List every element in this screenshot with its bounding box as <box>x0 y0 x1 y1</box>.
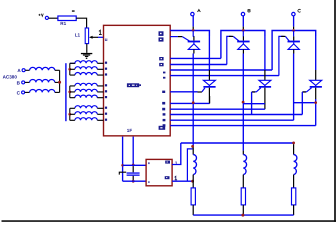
load B stub 3 <box>242 205 244 215</box>
node dot C feed <box>292 142 295 145</box>
wire <box>25 69 29 71</box>
IC output line 1 <box>170 57 221 59</box>
wire to box upper <box>123 164 147 166</box>
IC top-right pin glyphs <box>159 31 164 41</box>
box interior tick bottom-left <box>148 181 149 183</box>
box interior glyph right-bottom <box>165 176 170 179</box>
IC output line 3 <box>170 69 272 71</box>
branch C vertical lower <box>315 88 317 99</box>
wire +V to R1 <box>49 17 58 19</box>
capacitor C1 stub lower <box>132 176 134 181</box>
primary winding B <box>30 80 55 83</box>
IC right pin tick labels <box>159 57 165 127</box>
IC line C main <box>170 119 293 121</box>
IC return line B <box>170 108 265 110</box>
load A stub <box>192 147 194 154</box>
wire riser C junction feed <box>272 31 316 71</box>
wiper arrow <box>89 36 93 39</box>
terminal +V <box>45 16 48 19</box>
secondary winding 1b <box>75 67 97 70</box>
node dot <box>132 164 135 167</box>
node A load dot <box>191 145 194 148</box>
secondary group 1 bracket <box>69 63 71 75</box>
load B stub 2 <box>242 175 244 188</box>
secondary winding 2b <box>75 89 97 92</box>
IC output line 4 <box>170 75 279 77</box>
box U2 <box>146 159 172 185</box>
IC output line 2 <box>170 64 227 66</box>
load C stub <box>293 144 295 154</box>
potentiometer L1 <box>85 28 88 44</box>
secondary group 3 bracket <box>69 108 71 120</box>
svg-text:C: C <box>17 90 21 95</box>
phase C drop wire <box>293 16 295 27</box>
IC U1 box <box>104 25 171 136</box>
primary winding C <box>30 90 55 93</box>
terminal A left <box>22 69 25 72</box>
IC pin wire to phase A junction <box>170 31 209 37</box>
gate riser SCR2 <box>227 36 232 64</box>
node bus dot <box>241 214 244 217</box>
svg-text:L1: L1 <box>75 32 81 37</box>
phase A main vertical <box>192 54 194 147</box>
gate tail SCR5 <box>252 88 261 92</box>
wire B reconnect <box>243 103 265 105</box>
transformer core <box>65 63 67 121</box>
branch B vertical upper <box>264 36 266 70</box>
secondary group 2 bracket <box>69 86 71 98</box>
phase B drop wire <box>242 16 244 27</box>
branch B vertical lower <box>264 88 266 110</box>
thyristor SCR4 (phase A lower) <box>203 80 215 87</box>
junction dot <box>68 113 71 116</box>
capacitor C1 <box>127 172 140 173</box>
pin 1 label <box>99 30 102 34</box>
box interior glyph right-top <box>165 161 170 164</box>
primary join wire <box>59 70 61 92</box>
tick mark <box>72 10 75 11</box>
node A junction dot <box>192 29 195 32</box>
wire pot to ground <box>86 44 88 53</box>
node C junction dot <box>292 29 295 32</box>
secondary winding 2c <box>75 95 97 98</box>
wire <box>25 91 30 93</box>
svg-text:R1: R1 <box>60 21 66 26</box>
wire wiper to IC pin 1 <box>92 36 98 38</box>
node dot <box>121 164 124 167</box>
svg-text:u: u <box>105 38 108 43</box>
branch C vertical upper <box>315 36 317 70</box>
resistor R1 <box>58 16 76 21</box>
load C stub 2 <box>293 175 295 188</box>
node A bottom dot <box>192 101 195 104</box>
branch A vertical lower <box>208 88 210 104</box>
load A stub 3 <box>192 205 194 215</box>
wire box lower to A load <box>172 180 193 182</box>
box pin label 1 lower <box>175 176 178 180</box>
thyristor SCR1 (phase A upper) <box>188 30 200 53</box>
frame right border <box>334 0 336 222</box>
junction dot <box>58 81 61 84</box>
node dot <box>132 180 135 183</box>
wire riser B junction feed <box>221 31 265 59</box>
svg-text:AC380: AC380 <box>3 74 18 79</box>
IC center label <box>127 83 141 87</box>
wire <box>55 69 60 71</box>
ground <box>81 53 92 59</box>
wire C reconnect <box>294 102 316 104</box>
svg-text:B: B <box>17 80 21 85</box>
wire <box>55 91 60 93</box>
node dot <box>191 180 194 183</box>
secondary winding 3c <box>75 118 97 121</box>
IC bottom pin wire 1 <box>122 137 124 182</box>
primary winding A <box>30 67 55 70</box>
resistor RB <box>241 188 245 205</box>
wire to box lower <box>123 180 147 182</box>
wire feed to loads <box>181 142 294 144</box>
secondary winding 1c <box>75 73 97 76</box>
IC bottom-right pin glyph <box>159 126 166 130</box>
label +V <box>39 14 44 17</box>
inductor LA <box>193 155 196 175</box>
phase B main vertical <box>242 54 244 151</box>
gate tail SCR6 <box>302 88 311 92</box>
terminal B top <box>241 12 244 15</box>
svg-text:1F: 1F <box>127 128 133 133</box>
junction dot <box>68 68 71 71</box>
bottom bus <box>193 214 293 216</box>
inductor LC <box>294 155 297 175</box>
gate riser SCR3 <box>279 36 284 75</box>
wire R1 to corner <box>76 18 86 28</box>
thyristor SCR3 (phase C upper) <box>288 31 300 54</box>
gate wire SCR1 <box>170 36 178 38</box>
terminal C left <box>22 91 25 94</box>
thyristor SCR2 (phase B upper) <box>237 30 249 53</box>
phase C main vertical <box>293 54 295 121</box>
label B (top) <box>248 9 250 12</box>
load B stub <box>242 151 244 155</box>
thyristor SCR5 (phase B lower) <box>259 80 271 87</box>
wire box to riser <box>172 143 181 165</box>
node B junction dot <box>242 29 245 32</box>
svg-text:A: A <box>17 68 21 73</box>
node B bottom dot <box>242 101 245 104</box>
frame bottom border <box>2 220 336 222</box>
IC line C branch <box>170 125 316 127</box>
box interior tick top-left <box>148 162 149 164</box>
gate tail SCR4 <box>170 91 197 93</box>
wire stub jog <box>187 149 192 181</box>
phase A drop wire <box>192 16 194 27</box>
secondary winding 1a <box>70 61 97 64</box>
wire <box>25 81 30 83</box>
label A (top) <box>197 9 200 12</box>
capacitor C1 stub <box>132 166 134 172</box>
label C (top) <box>298 9 301 12</box>
terminal C top <box>292 12 295 15</box>
secondary winding 3b <box>75 112 97 115</box>
secondary winding 3a <box>75 106 97 109</box>
load A stub 2 <box>192 175 194 188</box>
capacitor polarity hook <box>119 172 126 174</box>
secondary winding 2a <box>75 83 97 86</box>
node C bottom dot <box>314 101 317 104</box>
IC left pin tick labels <box>105 62 107 121</box>
IC bottom pin wire 2 <box>132 137 134 165</box>
wire <box>55 81 60 83</box>
terminal A top <box>191 12 194 15</box>
resistor RA <box>191 188 195 205</box>
junction dot <box>68 91 71 94</box>
IC return line A <box>170 102 209 104</box>
terminal B left <box>22 81 25 84</box>
resistor RC <box>292 188 296 205</box>
IC line gate returns <box>170 114 302 116</box>
inductor LB <box>243 155 246 175</box>
load C stub 3 <box>293 205 295 215</box>
thyristor SCR6 (phase C lower) <box>310 80 322 87</box>
branch A vertical upper <box>208 36 210 70</box>
